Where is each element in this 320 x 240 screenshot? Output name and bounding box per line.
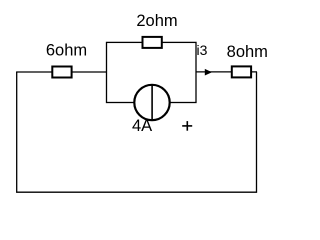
resistor 2ohm (143, 37, 162, 48)
svg-text:6ohm: 6ohm (46, 42, 87, 60)
current source diameter line (151, 84, 153, 121)
current source 4A circle (134, 85, 169, 120)
resistor 6ohm (52, 67, 71, 78)
label plus sign horizontal (182, 125, 192, 127)
wire top-left branch through 6ohm (16, 71, 106, 73)
wire inner rectangle (107, 42, 197, 102)
resistor 8ohm (232, 66, 251, 77)
svg-text:8ohm: 8ohm (227, 43, 268, 61)
wire right branch to 8ohm (196, 71, 257, 73)
label plus sign vertical (186, 121, 188, 131)
svg-text:2ohm: 2ohm (136, 12, 177, 30)
arrow i3 head (205, 69, 212, 76)
svg-text:4A: 4A (132, 117, 152, 135)
wire outer loop (left, bottom, right) (17, 72, 257, 192)
svg-text:i3: i3 (197, 42, 208, 58)
